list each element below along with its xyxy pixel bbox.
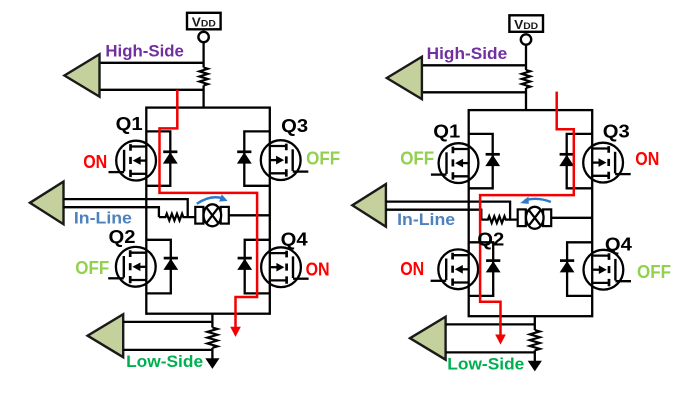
svg-text:Low-Side: Low-Side [447,355,524,374]
svg-text:High-Side: High-Side [105,41,183,60]
svg-text:In-Line: In-Line [397,210,455,229]
svg-text:Q4: Q4 [281,229,309,250]
svg-text:OFF: OFF [306,148,340,168]
svg-text:Q1: Q1 [433,121,460,142]
svg-text:OFF: OFF [400,148,434,168]
svg-text:Q2: Q2 [477,229,504,250]
svg-text:VDD: VDD [192,16,216,30]
svg-text:ON: ON [400,259,424,279]
svg-text:Q3: Q3 [603,121,630,142]
svg-text:ON: ON [306,259,330,279]
svg-text:Low-Side: Low-Side [126,352,203,371]
svg-text:VDD: VDD [514,18,538,32]
svg-text:ON: ON [635,149,659,169]
svg-text:High-Side: High-Side [427,44,508,63]
svg-text:Q1: Q1 [116,113,143,134]
svg-text:OFF: OFF [637,262,671,282]
svg-text:Q3: Q3 [281,115,308,136]
svg-text:OFF: OFF [75,258,109,278]
svg-text:Q4: Q4 [605,234,633,255]
svg-text:ON: ON [83,152,107,172]
svg-text:Q2: Q2 [109,226,136,247]
